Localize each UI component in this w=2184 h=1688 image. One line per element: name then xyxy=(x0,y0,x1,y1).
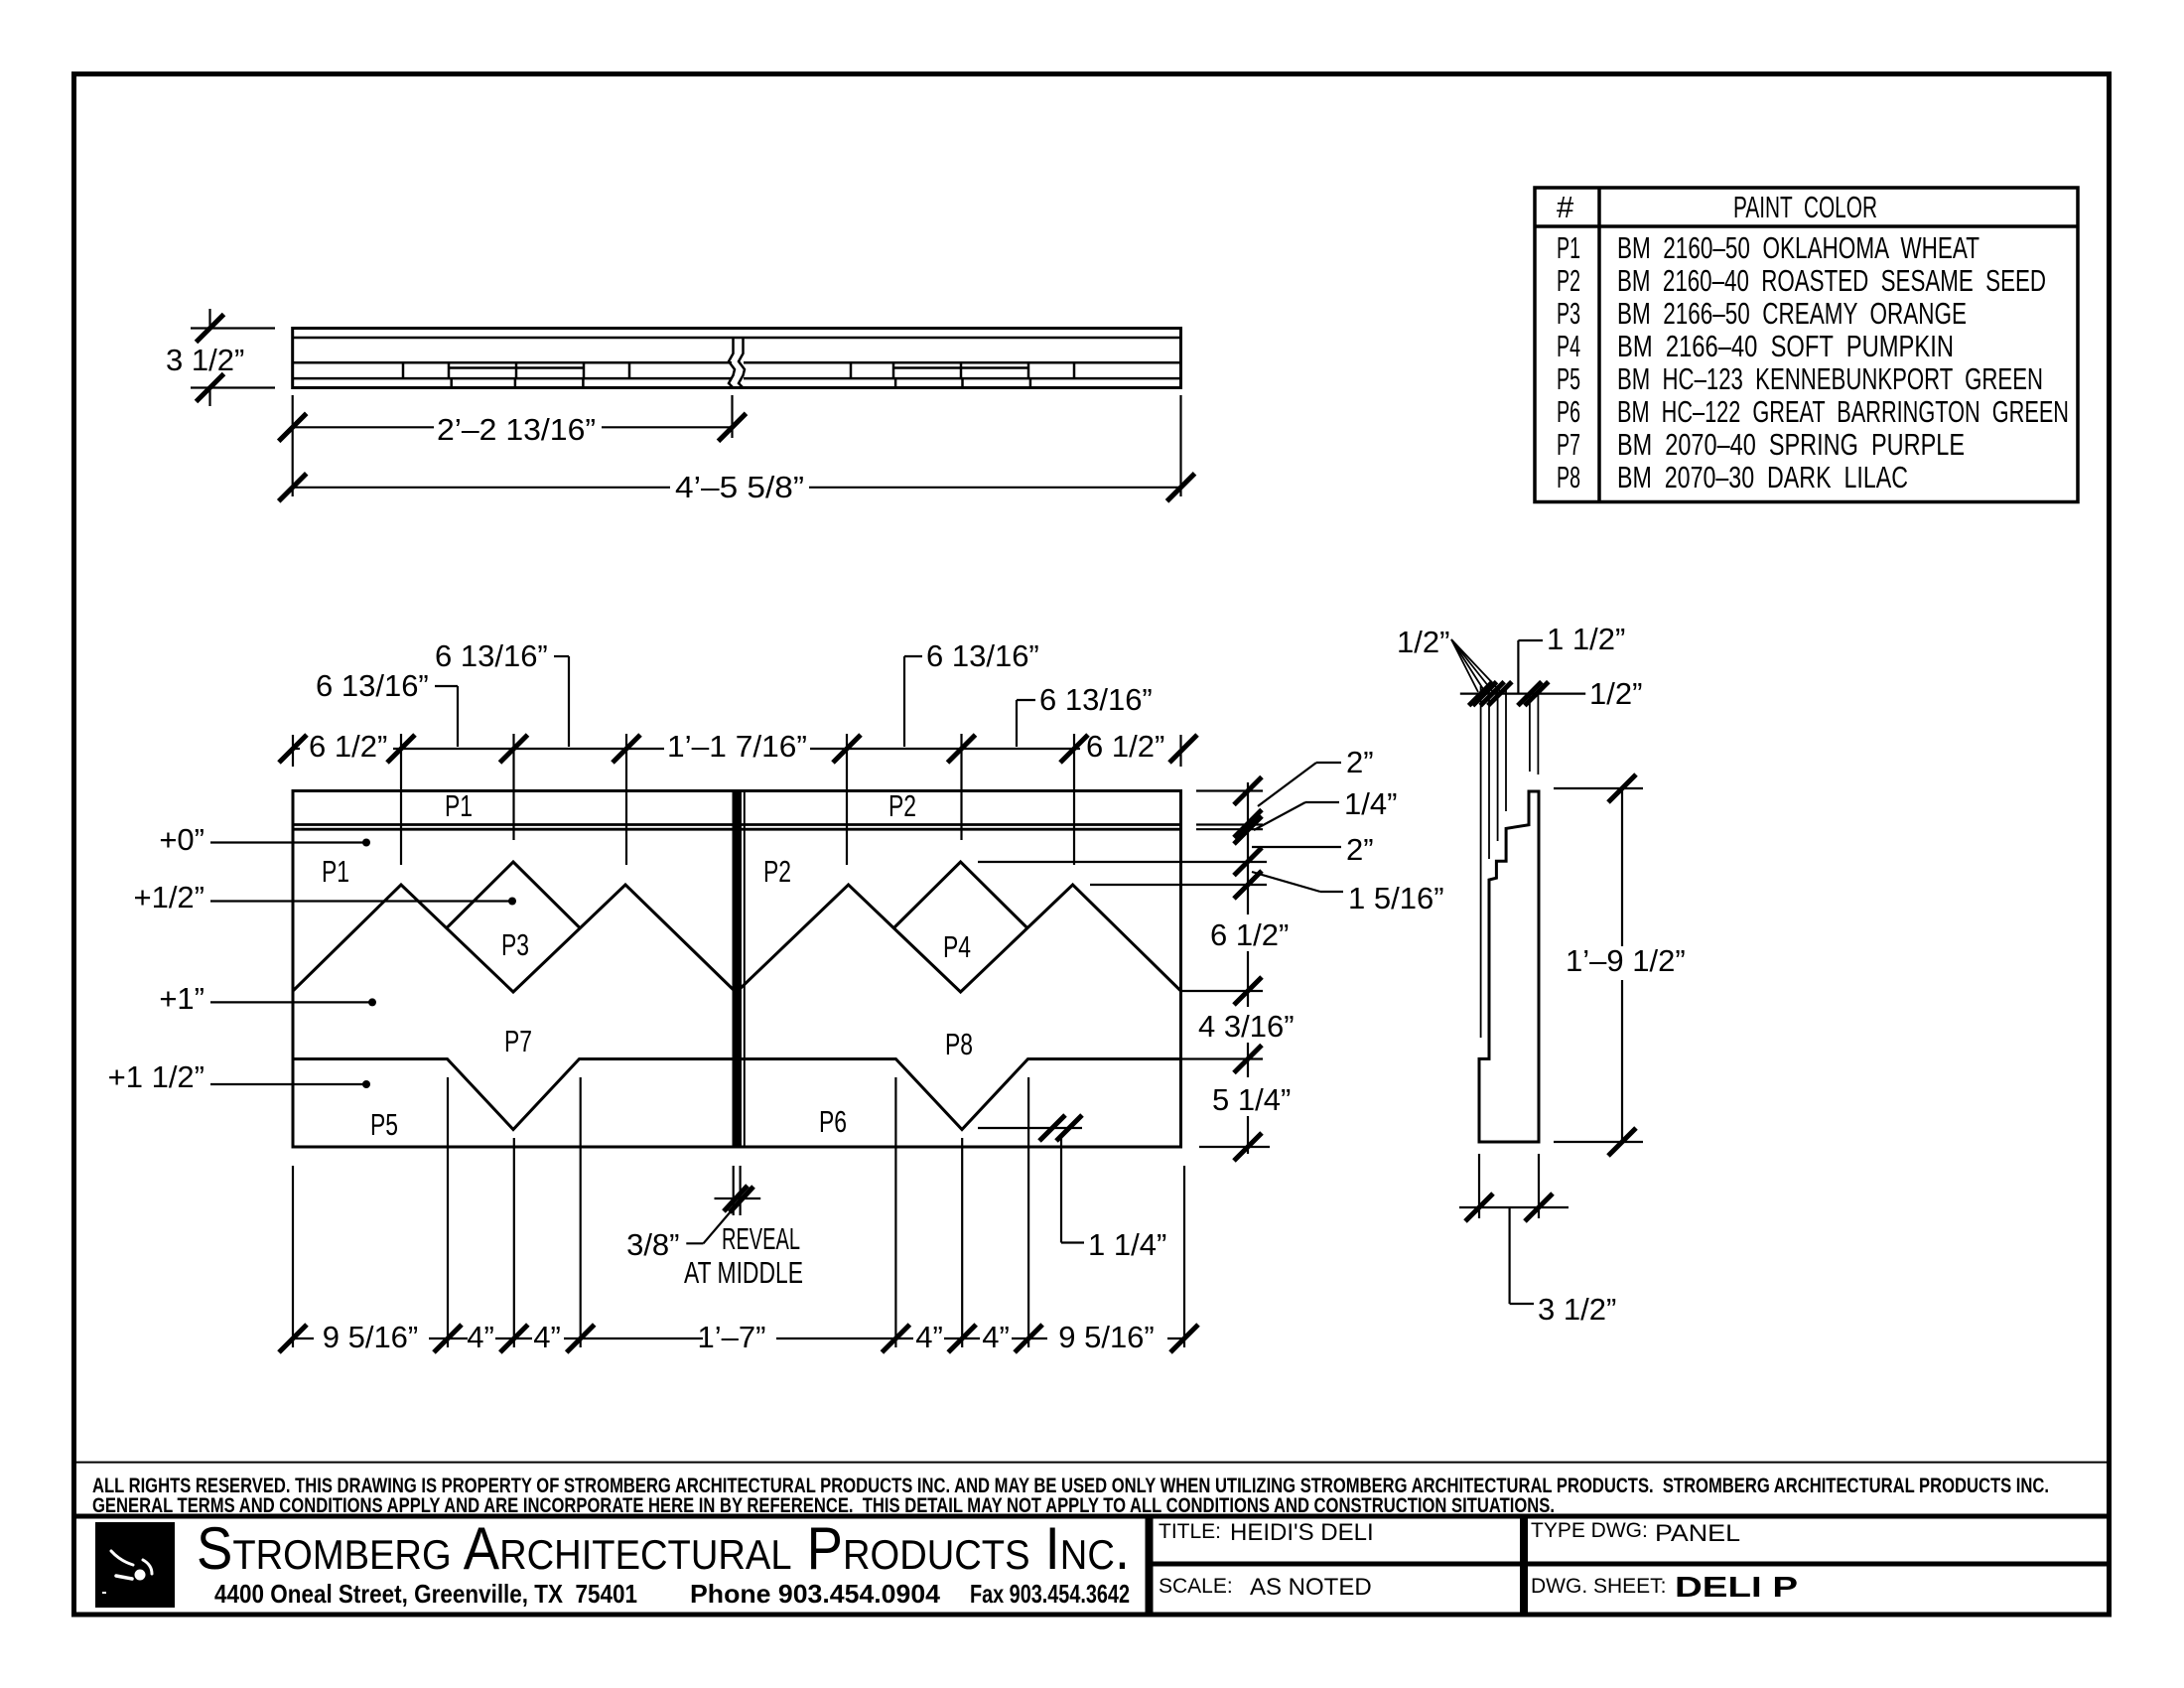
svg-text:9 5/16”: 9 5/16” xyxy=(323,1320,419,1354)
plan layer line left xyxy=(293,361,732,364)
svg-text:1/4”: 1/4” xyxy=(1344,786,1397,821)
bottom dim ticks xyxy=(279,1325,1198,1352)
svg-text:BM 2160–40 ROASTED SESAME: BM 2160–40 ROASTED SESAME SEED xyxy=(1617,263,2046,298)
top dimension line xyxy=(291,734,1181,865)
svg-text:#: # xyxy=(1557,190,1574,224)
svg-text:1/2”: 1/2” xyxy=(1589,676,1642,711)
svg-text:5 1/4”: 5 1/4” xyxy=(1212,1082,1291,1117)
svg-text:+0”: +0” xyxy=(159,822,205,857)
P7/P5 notch boundary left xyxy=(293,1059,733,1130)
elevation labels xyxy=(322,788,973,1142)
svg-text:6 13/16”: 6 13/16” xyxy=(926,638,1039,673)
top extension lines xyxy=(292,735,294,767)
bottom dim texts xyxy=(323,1320,1155,1354)
svg-text:2’–2 13/16”: 2’–2 13/16” xyxy=(437,412,596,447)
1 1/4 callout xyxy=(978,1128,1084,1243)
plan dim 3 1/2 ticks xyxy=(197,315,224,402)
plan dividers band3 right xyxy=(850,362,853,378)
table rows xyxy=(1557,230,2069,494)
3 1/2 bottom dim xyxy=(1459,1154,1569,1304)
svg-text:+1/2”: +1/2” xyxy=(133,880,205,914)
zigzag right xyxy=(737,885,1181,992)
svg-text:AS NOTED: AS NOTED xyxy=(1250,1574,1372,1601)
plan dim 3 1/2 xyxy=(191,309,275,406)
plan dividers band3 left xyxy=(403,362,1074,387)
svg-text:TITLE:: TITLE: xyxy=(1159,1520,1221,1543)
svg-text:P7: P7 xyxy=(504,1024,532,1058)
profile outline xyxy=(1479,791,1539,1142)
profile top dim line xyxy=(1460,692,1585,694)
svg-text:P4: P4 xyxy=(943,929,971,964)
6 13/16 label 3 xyxy=(904,656,922,747)
svg-text:3 1/2”: 3 1/2” xyxy=(166,343,244,377)
bottom dim line segments xyxy=(291,1337,314,1339)
reveal line lower xyxy=(293,828,1181,831)
svg-text:P5: P5 xyxy=(370,1107,398,1142)
1 1/2 label xyxy=(1518,640,1543,694)
svg-text:DELI P: DELI P xyxy=(1675,1572,1798,1604)
svg-text:+1”: +1” xyxy=(159,981,205,1016)
svg-text:HEIDI'S DELI: HEIDI'S DELI xyxy=(1230,1519,1374,1546)
svg-text:+1 1/2”: +1 1/2” xyxy=(108,1059,205,1094)
svg-text:P5: P5 xyxy=(1557,361,1580,396)
svg-text:6 13/16”: 6 13/16” xyxy=(316,668,429,703)
svg-text:1’–1 7/16”: 1’–1 7/16” xyxy=(667,729,807,764)
leader 1/4 inch xyxy=(1254,802,1339,830)
leader 1 5/16 xyxy=(1252,872,1343,892)
svg-text:9 5/16”: 9 5/16” xyxy=(1058,1320,1155,1354)
6 13/16 label 4 xyxy=(1017,700,1035,747)
svg-text:BM HC–122 GREAT BARRINGTON: BM HC–122 GREAT BARRINGTON GREEN xyxy=(1617,394,2069,429)
svg-text:3 1/2”: 3 1/2” xyxy=(1538,1292,1616,1327)
svg-text:P6: P6 xyxy=(819,1104,847,1139)
plan dim 2'-2 13/16 ticks xyxy=(279,413,747,441)
svg-text:AT MIDDLE: AT MIDDLE xyxy=(684,1255,803,1290)
leader 2 inch top xyxy=(1258,763,1341,806)
svg-text:4”: 4” xyxy=(533,1320,561,1354)
svg-text:4”: 4” xyxy=(467,1320,494,1354)
svg-text:P6: P6 xyxy=(1557,394,1580,429)
svg-text:BM HC–123 KENNEBUNKPORT GRE: BM HC–123 KENNEBUNKPORT GREEN xyxy=(1617,361,2043,396)
svg-text:1 1/4”: 1 1/4” xyxy=(1088,1227,1166,1262)
svg-text:P2: P2 xyxy=(763,854,791,889)
diamond P3 top edges xyxy=(448,862,580,927)
svg-text:P3: P3 xyxy=(1557,296,1580,331)
svg-text:6 1/2”: 6 1/2” xyxy=(1086,729,1164,764)
1/2 fan label xyxy=(1451,639,1501,692)
plan layer line right xyxy=(744,361,1181,364)
bottom extension lines xyxy=(291,1077,1184,1347)
profile dim ticks xyxy=(1469,682,1549,706)
svg-text:P8: P8 xyxy=(1557,460,1580,494)
diamond P4 top edges xyxy=(894,862,1026,927)
svg-text:P1: P1 xyxy=(322,854,349,889)
svg-text:BM 2166–40 SOFT PUMPKIN: BM 2166–40 SOFT PUMPKIN xyxy=(1617,329,1954,363)
plan inner top line xyxy=(293,337,1181,340)
plan outline xyxy=(293,329,1181,388)
profile extension lines xyxy=(1481,686,1539,1038)
svg-text:SCALE:: SCALE: xyxy=(1159,1575,1233,1598)
svg-text:1’–7”: 1’–7” xyxy=(698,1320,766,1354)
svg-text:1’–9 1/2”: 1’–9 1/2” xyxy=(1566,943,1686,978)
right dim ticks xyxy=(1234,777,1262,1162)
svg-text:BM 2070–40 SPRING PURPLE: BM 2070–40 SPRING PURPLE xyxy=(1617,427,1965,462)
svg-text:6 13/16”: 6 13/16” xyxy=(435,638,548,673)
svg-text:DWG. SHEET:: DWG. SHEET: xyxy=(1531,1575,1667,1598)
disclaimer separator line xyxy=(76,1462,2107,1464)
right dim column xyxy=(978,782,1270,1154)
svg-text:PAINT COLOR: PAINT COLOR xyxy=(1733,190,1877,224)
svg-text:P3: P3 xyxy=(501,927,529,962)
svg-text:3/8”: 3/8” xyxy=(626,1227,679,1262)
svg-text:BM 2070–30 DARK LILAC: BM 2070–30 DARK LILAC xyxy=(1617,460,1908,494)
svg-text:4 3/16”: 4 3/16” xyxy=(1198,1009,1295,1044)
plan dim 4'-5 5/8 xyxy=(293,395,1181,496)
plan dim 2'-2 13/16 xyxy=(293,395,733,496)
svg-text:TYPE DWG:: TYPE DWG: xyxy=(1531,1519,1648,1542)
svg-text:Fax 903.454.3642: Fax 903.454.3642 xyxy=(970,1579,1130,1609)
svg-text:REVEAL: REVEAL xyxy=(722,1221,800,1256)
PAINT COLOR TABLE xyxy=(1535,188,2078,502)
TITLE BLOCK xyxy=(76,1516,2107,1615)
svg-text:Stromberg Architectural Produc: Stromberg Architectural Products Inc. xyxy=(197,1515,1130,1582)
svg-text:P7: P7 xyxy=(1557,427,1580,462)
plan lower layer line left xyxy=(293,377,732,380)
plan lower layer line right xyxy=(744,377,1181,380)
top dim ticks xyxy=(279,735,1197,763)
plan dividers band4 right xyxy=(894,378,897,387)
plan dim 4'-5 5/8 ticks xyxy=(279,474,1195,501)
svg-text:6 1/2”: 6 1/2” xyxy=(1210,917,1289,952)
svg-text:P1: P1 xyxy=(1557,230,1580,265)
svg-text:P2: P2 xyxy=(888,788,916,823)
P8/P6 notch boundary right xyxy=(742,1059,1181,1130)
center joint thin line xyxy=(744,791,746,1148)
logo xyxy=(95,1522,175,1608)
svg-text:6 1/2”: 6 1/2” xyxy=(309,729,387,764)
svg-text:PANEL: PANEL xyxy=(1655,1520,1740,1547)
right extension lines xyxy=(1196,789,1263,791)
plan dividers band4 left xyxy=(450,378,453,387)
svg-text:P4: P4 xyxy=(1557,329,1580,363)
svg-text:4’–5 5/8”: 4’–5 5/8” xyxy=(675,470,804,504)
svg-text:P2: P2 xyxy=(1557,263,1580,298)
svg-text:P8: P8 xyxy=(945,1027,973,1061)
6 13/16 label 2 xyxy=(554,656,569,747)
plan lap joint lines left xyxy=(450,366,515,369)
svg-text:1 1/2”: 1 1/2” xyxy=(1547,622,1625,656)
svg-text:1 5/16”: 1 5/16” xyxy=(1348,881,1444,915)
center joint thick bar xyxy=(733,791,743,1148)
1'-9 1/2 vertical dim xyxy=(1554,788,1643,1142)
svg-text:BM 2160–50 OKLAHOMA WHEAT: BM 2160–50 OKLAHOMA WHEAT xyxy=(1617,230,1979,265)
panel outline xyxy=(293,791,1181,1148)
svg-text:1/2”: 1/2” xyxy=(1397,625,1449,659)
svg-text:2”: 2” xyxy=(1346,745,1374,779)
svg-text:6 13/16”: 6 13/16” xyxy=(1039,682,1153,717)
reveal line upper xyxy=(293,823,1181,826)
svg-text:4”: 4” xyxy=(915,1320,943,1354)
svg-text:BM 2166–50 CREAMY ORANGE: BM 2166–50 CREAMY ORANGE xyxy=(1617,296,1967,331)
svg-text:P1: P1 xyxy=(445,788,473,823)
svg-text:4400 Oneal Street, Greenville,: 4400 Oneal Street, Greenville, TX 75401 xyxy=(214,1579,637,1609)
zigzag left xyxy=(293,885,736,992)
svg-text:Phone 903.454.0904: Phone 903.454.0904 xyxy=(690,1579,941,1609)
plan center break lines xyxy=(729,338,745,388)
plan lap joint lines right xyxy=(894,366,960,369)
PLAN VIEW GROUP xyxy=(293,329,1181,388)
left offset leaders xyxy=(210,843,512,1085)
6 13/16 label 1 xyxy=(435,686,458,747)
3/8 reveal callout xyxy=(686,1166,760,1243)
svg-text:2”: 2” xyxy=(1346,832,1374,867)
leader 2 inch mid xyxy=(1252,846,1341,848)
svg-text:4”: 4” xyxy=(982,1320,1010,1354)
